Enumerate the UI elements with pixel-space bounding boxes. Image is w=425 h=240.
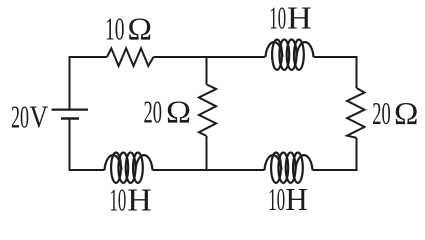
wire bottom-middle horizontal [153, 169, 265, 171]
svg-text:10: 10 [110, 182, 127, 218]
inductor L1 10H top [266, 40, 314, 70]
svg-text:20: 20 [144, 94, 163, 130]
wire right rail lower stub [356, 138, 358, 171]
wire top-left horizontal [70, 56, 108, 58]
wire bottom-left horizontal [70, 169, 105, 171]
value label 20ohm middle [144, 94, 192, 130]
value label 10H bottom-right [268, 181, 308, 217]
value label 10H bottom-left [110, 182, 152, 218]
wire left rail lower [69, 119, 71, 172]
wire middle rail upper stub [206, 57, 208, 84]
value label 20ohm right [372, 95, 418, 131]
value label 10H top [269, 0, 311, 36]
wire middle rail lower stub [206, 136, 208, 171]
inductor L2 10H bottom-left [105, 153, 153, 183]
svg-text:Ω: Ω [166, 94, 191, 130]
battery V1 long plate [52, 108, 89, 110]
wire bottom-right horizontal [313, 169, 358, 171]
value label 20V [11, 99, 48, 135]
svg-text:20: 20 [372, 95, 391, 131]
svg-text:V: V [30, 99, 49, 135]
svg-text:10: 10 [105, 10, 125, 46]
wire top-right horizontal [314, 56, 357, 58]
resistor R2 20ohm vertical middle [199, 84, 216, 135]
svg-text:H: H [127, 182, 152, 218]
resistor R1 10ohm zigzag [107, 48, 154, 66]
svg-text:20: 20 [11, 99, 29, 135]
svg-text:H: H [285, 181, 307, 217]
svg-text:10: 10 [269, 0, 286, 36]
svg-text:10: 10 [268, 181, 285, 217]
wire right rail upper stub [356, 56, 358, 88]
svg-text:Ω: Ω [394, 95, 418, 131]
svg-text:Ω: Ω [128, 10, 153, 46]
inductor L3 10H bottom-right [265, 153, 313, 183]
battery V1 short plate [61, 117, 79, 120]
wire left rail upper [69, 56, 71, 110]
svg-text:H: H [287, 0, 312, 36]
resistor R3 20ohm vertical right [347, 88, 364, 138]
wire top-middle horizontal [154, 56, 266, 58]
value label 10ohm [105, 10, 152, 46]
